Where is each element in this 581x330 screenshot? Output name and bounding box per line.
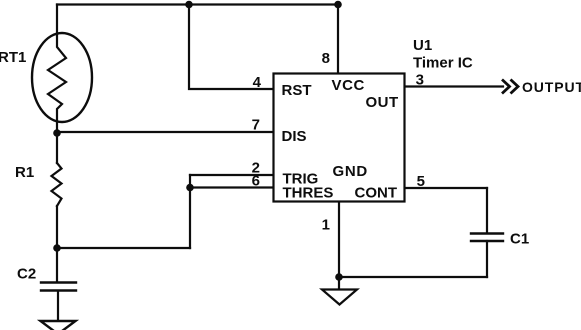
resistor R1 [52, 163, 62, 206]
svg-text:4: 4 [253, 74, 262, 91]
svg-text:U1: U1 [413, 37, 432, 54]
node R1/C2/thres junction [53, 244, 61, 252]
svg-text:C1: C1 [510, 231, 529, 248]
ground C2 [41, 321, 76, 330]
capacitor C1 [471, 234, 503, 242]
svg-text:RST: RST [282, 82, 312, 99]
wire bottom rail pin1 to C1 [339, 276, 487, 278]
wire top rail [57, 3, 338, 5]
wire left drop to RT1 [56, 5, 58, 35]
wire C1 to bottom rail [486, 241, 488, 277]
svg-text:8: 8 [322, 50, 330, 67]
node junction top rail / pin8 corner [334, 1, 342, 9]
svg-text:1: 1 [322, 217, 330, 234]
wire vertical riser to pin2 [189, 175, 191, 248]
node RT1 bottom junction [53, 129, 61, 137]
wire pin5 to C1 [486, 188, 488, 233]
wire R1 to C2 node [56, 206, 58, 248]
output chevron arrow [502, 80, 518, 94]
wire pin4 branch [189, 5, 273, 90]
wire C2 to ground [57, 291, 59, 320]
wire VCC pin8 [337, 5, 339, 74]
svg-text:OUT: OUT [366, 94, 399, 111]
wire bottom-left horizontal [57, 247, 190, 249]
wire DIS pin7 [57, 131, 273, 133]
svg-text:6: 6 [252, 173, 260, 190]
svg-text:CONT: CONT [355, 185, 398, 202]
op-amp U1 555 timer IC body [274, 74, 405, 202]
svg-text:Timer IC: Timer IC [413, 55, 473, 72]
wire pin1 node to ground [338, 277, 340, 289]
node pin6 junction [186, 184, 194, 192]
node pin1 ground junction [335, 273, 343, 281]
svg-text:GND: GND [333, 163, 368, 180]
svg-text:R1: R1 [15, 164, 34, 181]
svg-text:7: 7 [252, 117, 260, 134]
wire OUT pin3 [405, 85, 503, 87]
svg-text:THRES: THRES [283, 185, 334, 202]
svg-text:C2: C2 [17, 266, 36, 283]
svg-text:VCC: VCC [332, 77, 365, 94]
wire node to C2 [56, 248, 58, 282]
wire GND pin1 [338, 202, 340, 277]
svg-text:DIS: DIS [282, 128, 307, 145]
wire CONT pin5 [405, 187, 487, 189]
node junction top rail / pin4 branch [185, 1, 193, 9]
ground pin1 [322, 290, 357, 305]
svg-text:OUTPUT: OUTPUT [522, 79, 581, 95]
svg-text:3: 3 [416, 72, 424, 89]
wire TRIG pin2 [190, 174, 273, 176]
capacitor C2 [41, 283, 76, 291]
thermistor RT1 [32, 33, 92, 133]
wire THRES pin6 [190, 186, 273, 188]
svg-text:RT1: RT1 [0, 49, 26, 66]
svg-text:5: 5 [417, 173, 425, 190]
wire RT1 to R1 [56, 133, 58, 163]
